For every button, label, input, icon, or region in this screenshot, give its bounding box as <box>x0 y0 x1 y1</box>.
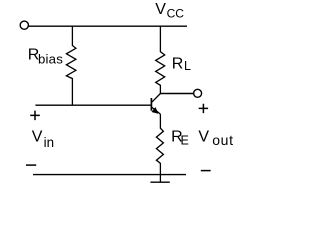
svg-text:V: V <box>198 129 209 146</box>
svg-text:in: in <box>44 135 54 150</box>
svg-text:L: L <box>184 59 191 73</box>
svg-text:out: out <box>212 132 233 148</box>
svg-text:bias: bias <box>38 51 63 66</box>
svg-text:V: V <box>32 128 43 145</box>
svg-text:V: V <box>155 1 166 18</box>
svg-text:E: E <box>181 134 189 148</box>
svg-text:CC: CC <box>167 7 185 21</box>
svg-text:R: R <box>172 55 184 72</box>
